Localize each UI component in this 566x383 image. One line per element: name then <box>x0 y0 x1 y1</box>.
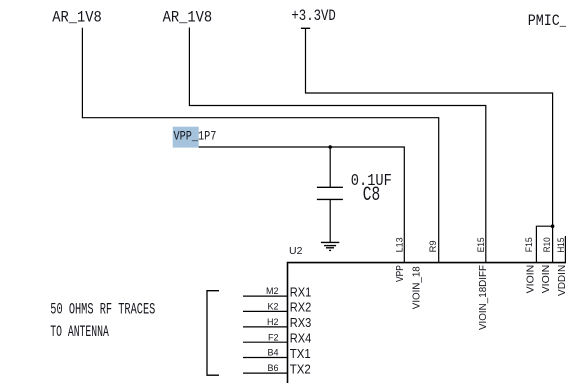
bracket for RF traces <box>207 291 219 376</box>
svg-text:TO ANTENNA: TO ANTENNA <box>50 323 109 341</box>
pin number F15 <box>524 237 534 252</box>
svg-text:RX2: RX2 <box>290 300 312 315</box>
svg-text:RX3: RX3 <box>290 315 312 330</box>
svg-text:F15: F15 <box>524 237 534 252</box>
svg-text:VPP: VPP <box>394 265 406 282</box>
pin K2 RX2 stub <box>243 310 288 312</box>
svg-text:B4: B4 <box>267 348 278 358</box>
pin name RX2 <box>290 300 312 315</box>
reference label U2 <box>289 245 303 257</box>
junction dot at capacitor branch <box>328 145 332 149</box>
pin name VIOIN_18DIFF <box>477 265 489 330</box>
svg-text:F2: F2 <box>268 332 279 342</box>
pin name VIOIN_18 <box>410 266 422 309</box>
net label VPP_1P7 with selection highlight <box>173 127 217 148</box>
capacitor C8 plates <box>317 187 343 199</box>
reference label C8 <box>363 184 380 207</box>
comment text TO ANTENNA <box>50 323 109 341</box>
wire VPP_1P7 net to pin L13 <box>199 147 405 262</box>
pin number K2 <box>267 302 278 312</box>
pin number B6 <box>267 363 278 373</box>
pin name VIOIN (F15) <box>525 265 537 294</box>
pin number R10 <box>542 237 552 252</box>
svg-text:TX1: TX1 <box>290 346 311 361</box>
pin number M2 <box>266 286 279 296</box>
svg-text:L13: L13 <box>394 237 404 252</box>
pin H2 RX3 stub <box>243 326 288 328</box>
pin name RX3 <box>290 315 312 330</box>
svg-text:+3.3VD: +3.3VD <box>291 7 335 25</box>
svg-text:M2: M2 <box>266 286 279 296</box>
pin number B4 <box>267 348 278 358</box>
svg-text:H15: H15 <box>556 238 566 253</box>
pin number H15 <box>556 238 566 253</box>
power symbol +3.3VD <box>291 7 335 28</box>
svg-text:VIOIN_18DIFF: VIOIN_18DIFF <box>477 265 489 330</box>
pin name VIOIN (R10) <box>540 265 552 294</box>
pin number R9 <box>428 240 438 252</box>
component U2 outline <box>288 263 566 383</box>
pin name RX4 <box>290 331 312 346</box>
svg-text:RX4: RX4 <box>290 331 312 346</box>
wire branch to pin F15 <box>536 226 552 262</box>
pin name TX1 <box>290 346 311 361</box>
svg-text:U2: U2 <box>289 245 303 257</box>
svg-text:K2: K2 <box>267 302 278 312</box>
pin H15 stub <box>564 236 566 262</box>
svg-text:50 OHMS RF TRACES: 50 OHMS RF TRACES <box>50 301 155 319</box>
pin name VDDIN (H15, cut at edge) <box>556 265 566 296</box>
pin name RX1 <box>290 284 312 299</box>
pin number L13 <box>394 237 404 252</box>
power net label AR_1V8 (second) <box>163 9 213 27</box>
junction dot at R10 branch <box>551 224 555 228</box>
svg-text:H2: H2 <box>267 317 279 327</box>
power net label AR_1V8 (left) <box>52 9 102 27</box>
wire +3.3VD to pin R10 <box>306 28 553 262</box>
ground <box>321 242 339 250</box>
svg-text:C8: C8 <box>363 184 380 207</box>
svg-text:R10: R10 <box>542 237 552 252</box>
svg-text:TX2: TX2 <box>290 361 311 376</box>
pin M2 RX1 stub <box>243 295 288 297</box>
pin name VPP <box>394 265 406 282</box>
svg-text:VPP_1P7: VPP_1P7 <box>174 128 217 143</box>
svg-text:PMIC_: PMIC_ <box>528 12 566 30</box>
svg-text:AR_1V8: AR_1V8 <box>52 9 102 27</box>
pin F2 RX4 stub <box>243 341 288 343</box>
svg-text:B6: B6 <box>267 363 278 373</box>
value label 0.1UF <box>351 172 392 191</box>
svg-text:E15: E15 <box>476 237 486 252</box>
pin number E15 <box>476 237 486 252</box>
pin name TX2 <box>290 361 311 376</box>
pin number F2 <box>268 332 279 342</box>
svg-text:VIOIN_18: VIOIN_18 <box>410 266 422 309</box>
pin B6 TX2 stub <box>243 372 288 374</box>
wire junction to capacitor C8 <box>329 147 331 187</box>
svg-text:VDDIN: VDDIN <box>556 265 566 296</box>
svg-text:R9: R9 <box>428 240 438 252</box>
svg-text:VIOIN: VIOIN <box>525 265 537 294</box>
wire AR_1V8 left to pin R9 <box>82 28 438 262</box>
pin B4 TX1 stub <box>243 357 288 359</box>
wire capacitor to ground <box>329 199 331 242</box>
svg-text:AR_1V8: AR_1V8 <box>163 9 213 27</box>
comment text 50 OHMS RF TRACES <box>50 301 155 319</box>
svg-text:RX1: RX1 <box>290 284 312 299</box>
wire AR_1V8 second to pin E15 <box>189 28 485 263</box>
pin number H2 <box>267 317 279 327</box>
svg-text:VIOIN: VIOIN <box>540 265 552 294</box>
net label PMIC_ (cut at edge) <box>528 12 566 30</box>
